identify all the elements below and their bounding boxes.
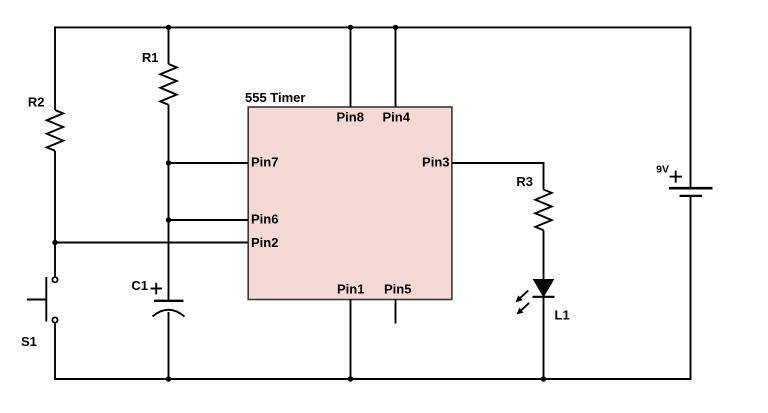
label 555 Timer: [245, 90, 305, 105]
wire Pin3 (box to R3): [452, 163, 544, 190]
svg-text:9V: 9V: [656, 164, 669, 176]
pin label Pin3: [422, 155, 449, 170]
wire Pin6 (box to R1 column): [169, 219, 249, 221]
wire C1 to bottom rail: [168, 312, 170, 380]
svg-text:R3: R3: [516, 174, 533, 189]
node Pin6 R1 junction: [166, 217, 171, 222]
battery B1 9V: [669, 188, 713, 196]
wire LED to bottom rail: [543, 297, 545, 380]
wire left lower (switch to bottom rail): [54, 323, 56, 380]
capacitor C1: [153, 301, 185, 317]
wire left middle (R2 to switch): [54, 151, 56, 277]
svg-text:555 Timer: 555 Timer: [245, 90, 305, 105]
svg-text:Pin5: Pin5: [384, 282, 411, 297]
wire bottom rail: [54, 378, 692, 380]
pin label Pin8: [337, 110, 364, 125]
pin label Pin6: [251, 212, 278, 227]
node Pin2 left rail junction: [52, 240, 57, 245]
LED L1 emission arrows: [516, 291, 530, 315]
svg-text:Pin7: Pin7: [251, 155, 278, 170]
wire left upper (top rail to R2): [54, 26, 56, 110]
wire R1 top (top rail to R1): [168, 27, 170, 64]
pin label Pin5: [384, 282, 411, 297]
wire top rail: [54, 26, 692, 28]
label L1: [555, 308, 570, 323]
wire right upper (top rail to battery): [690, 26, 692, 187]
resistor R3: [535, 190, 551, 231]
op-amp U1 555 timer body: [248, 107, 452, 300]
label C1: [131, 278, 148, 293]
pin label Pin7: [251, 155, 278, 170]
svg-text:Pin6: Pin6: [251, 212, 278, 227]
svg-text:Pin4: Pin4: [383, 110, 411, 125]
label R1: [142, 50, 159, 65]
svg-text:R1: R1: [142, 50, 159, 65]
LED L1 diode: [533, 280, 555, 297]
label S1: [21, 334, 37, 349]
svg-text:Pin2: Pin2: [251, 235, 278, 250]
svg-text:R2: R2: [28, 95, 45, 110]
node LED bottom rail junction: [541, 376, 546, 381]
switch S1: [27, 277, 58, 323]
svg-text:Pin8: Pin8: [337, 110, 364, 125]
svg-text:Pin1: Pin1: [337, 282, 364, 297]
wire right lower (battery to bottom rail): [690, 197, 692, 380]
label R2: [28, 95, 45, 110]
C1 polarity plus: [151, 283, 163, 295]
pin label Pin1: [337, 282, 364, 297]
label R3: [516, 174, 533, 189]
pin label Pin4: [383, 110, 411, 125]
node Pin8 top rail junction: [348, 25, 353, 30]
wire Pin1 (box to bottom rail): [350, 299, 352, 380]
node Pin1 bottom rail junction: [348, 376, 353, 381]
svg-text:S1: S1: [21, 334, 37, 349]
wire Pin8 (top rail to box): [350, 27, 352, 107]
svg-text:L1: L1: [555, 308, 570, 323]
battery polarity plus: [670, 171, 683, 183]
svg-text:Pin3: Pin3: [422, 155, 449, 170]
wire R3 to LED: [543, 230, 545, 280]
resistor R2: [47, 110, 63, 151]
wire Pin5 stub: [395, 299, 397, 323]
node Pin7 R1 junction: [166, 160, 171, 165]
wire Pin4 (top rail to box): [395, 27, 397, 107]
pin label Pin2: [251, 235, 278, 250]
node C1 bottom rail junction: [166, 376, 171, 381]
svg-text:C1: C1: [131, 278, 148, 293]
label 9V: [656, 164, 669, 176]
wire R1 to C1: [168, 105, 170, 300]
wire Pin7 (box to R1 column): [169, 162, 249, 164]
wire Pin2 (box to left rail): [55, 242, 248, 244]
node R1 top rail junction: [166, 25, 171, 30]
node Pin4 top rail junction: [393, 25, 398, 30]
resistor R1: [160, 64, 176, 105]
